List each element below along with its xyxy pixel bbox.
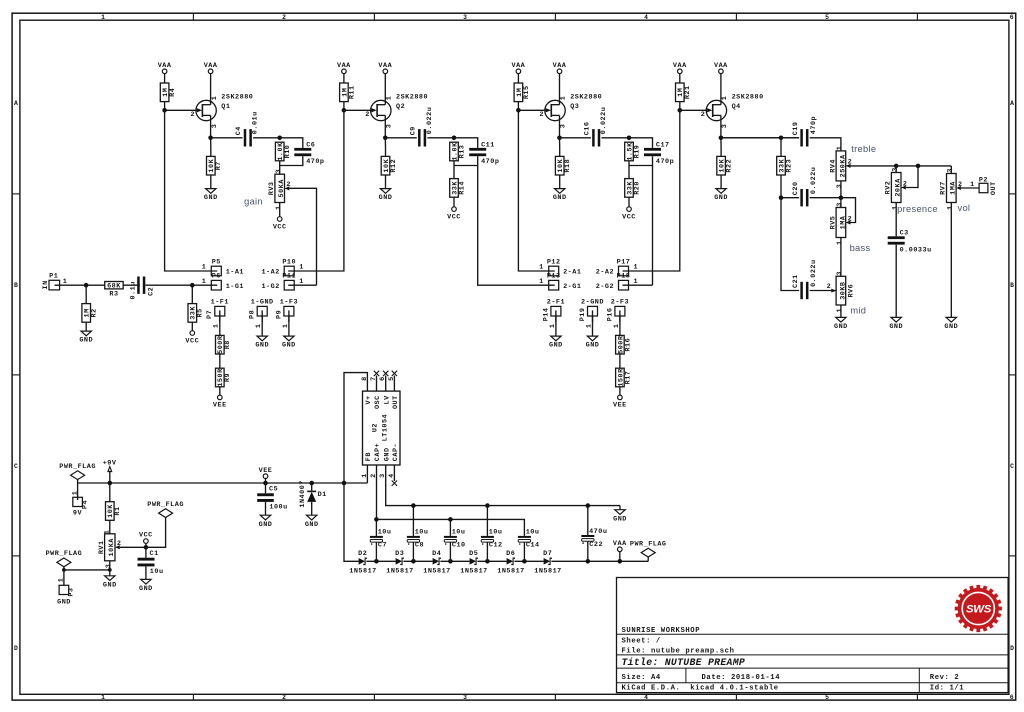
- capacitor C10 10u: [444, 529, 466, 550]
- wire R12 to GND: [385, 175, 387, 189]
- capacitor C21: [792, 259, 818, 299]
- svg-text:RV1: RV1: [98, 540, 106, 554]
- svg-text:1: 1: [947, 205, 955, 210]
- wire GND rail end: [619, 506, 621, 510]
- svg-text:PWR_FLAG: PWR_FLAG: [630, 540, 667, 548]
- svg-text:R8: R8: [224, 340, 232, 349]
- svg-text:RV4: RV4: [829, 159, 837, 173]
- svg-text:10u: 10u: [150, 568, 164, 576]
- ground below R7: [204, 189, 218, 203]
- wire C14 bottom stub: [523, 542, 525, 561]
- svg-text:C21: C21: [792, 274, 800, 288]
- svg-text:P9: P9: [275, 310, 283, 319]
- junction C7/CAP+: [374, 517, 379, 522]
- power VAA (stage 2 drain): [378, 62, 392, 74]
- svg-text:GND: GND: [305, 521, 319, 529]
- svg-text:3: 3: [275, 169, 283, 174]
- svg-text:GND: GND: [204, 194, 218, 202]
- wire node to R23: [780, 138, 782, 157]
- diode D4 1N5817: [423, 550, 450, 575]
- svg-text:U2: U2: [371, 423, 379, 432]
- wire P9 to GND: [288, 316, 290, 336]
- wire R8 to R9: [219, 354, 221, 368]
- junction C22/VAA rail: [586, 559, 591, 564]
- svg-text:Q1: Q1: [221, 103, 230, 111]
- svg-text:1: 1: [211, 96, 219, 101]
- svg-text:10u: 10u: [452, 529, 466, 537]
- wire C1 to GND: [145, 566, 147, 579]
- svg-text:2-G2: 2-G2: [596, 283, 614, 291]
- svg-text:A: A: [14, 100, 18, 107]
- capacitor C19: [792, 116, 818, 147]
- svg-text:R11: R11: [348, 85, 356, 99]
- svg-text:P11: P11: [282, 273, 296, 281]
- wire RV5 to RV6: [840, 238, 842, 277]
- svg-text:R1: R1: [114, 506, 122, 515]
- svg-text:2: 2: [282, 694, 286, 701]
- svg-text:1: 1: [836, 240, 844, 245]
- svg-text:1: 1: [970, 181, 975, 189]
- svg-text:3: 3: [721, 124, 729, 129]
- svg-text:GND: GND: [549, 342, 563, 350]
- svg-text:C: C: [14, 463, 18, 470]
- wire VAA to Q2 drain: [384, 74, 386, 105]
- wire RV3 to VCC: [279, 203, 281, 217]
- svg-text:IN: IN: [42, 280, 50, 289]
- svg-text:0.022u: 0.022u: [600, 107, 608, 134]
- svg-text:GND: GND: [255, 342, 269, 350]
- svg-text:470p: 470p: [306, 158, 324, 166]
- logo SWS: [955, 585, 1002, 632]
- svg-text:1: 1: [101, 14, 105, 21]
- svg-text:1: 1: [539, 264, 544, 272]
- svg-text:2-A2: 2-A2: [596, 269, 614, 277]
- junction C8/GND rail: [411, 503, 416, 508]
- wire C16 to node: [602, 137, 630, 139]
- connector P14 (2-F1): [542, 298, 565, 328]
- junction Q3 source node: [557, 136, 562, 141]
- svg-text:D1: D1: [318, 491, 327, 499]
- wire bass node to C20: [781, 197, 799, 199]
- resistor R2: [82, 304, 99, 323]
- wire V+ to diode rail: [344, 483, 359, 561]
- wire U2 pin1 FB to rail: [366, 465, 368, 483]
- svg-text:470p: 470p: [481, 158, 499, 166]
- wire gate node to Q2 gate: [344, 109, 372, 111]
- power flag at VAA: [630, 540, 667, 557]
- ground below P8: [255, 336, 269, 350]
- svg-text:2-GND: 2-GND: [581, 298, 604, 306]
- wire stage3 output to 2-G2: [652, 166, 654, 286]
- wire VAA to Q3 drain: [559, 74, 561, 105]
- wire C21 branch: [781, 198, 799, 291]
- wire R21 to gate node: [679, 102, 681, 111]
- ground below C5: [259, 515, 273, 529]
- wire RV6 to GND: [840, 305, 842, 317]
- capacitor C8 10u: [407, 529, 429, 550]
- wire R10 bottom segment: [279, 161, 281, 174]
- wire P8 to GND: [261, 316, 263, 336]
- wire R23 to bass node: [780, 175, 782, 198]
- svg-text:1-A2: 1-A2: [261, 269, 279, 277]
- wire RV7 to GND: [950, 203, 952, 318]
- svg-text:P18: P18: [617, 273, 631, 281]
- wire R19 bottom segment: [628, 161, 630, 179]
- wire C7 top to CAP+ rail: [375, 519, 377, 536]
- svg-text:30KB: 30KB: [839, 281, 847, 299]
- svg-text:1: 1: [58, 578, 66, 583]
- noconnect pin7: [374, 371, 379, 376]
- wire C22 top to GND rail: [587, 506, 589, 535]
- svg-text:P1: P1: [49, 273, 58, 281]
- svg-text:VCC: VCC: [139, 532, 153, 540]
- svg-text:1N4007: 1N4007: [299, 480, 307, 507]
- wire C8 bottom stub: [412, 542, 414, 561]
- capacitor C17: [644, 141, 674, 166]
- svg-text:2SK2880: 2SK2880: [396, 93, 428, 101]
- svg-text:R2: R2: [91, 308, 99, 317]
- capacitor C2: [129, 277, 155, 300]
- svg-text:GND: GND: [383, 447, 391, 461]
- wire Q3 gate to 2-A1: [518, 110, 554, 271]
- junction RV2 wiper tap: [916, 164, 921, 169]
- svg-text:GND: GND: [613, 515, 627, 523]
- svg-text:C12: C12: [489, 542, 503, 550]
- wire C17 bottom to divider node: [629, 156, 653, 165]
- wire 2-G2 stub: [623, 284, 653, 286]
- svg-text:10u: 10u: [415, 529, 429, 537]
- svg-text:P17: P17: [617, 258, 631, 266]
- svg-text:mid: mid: [850, 306, 866, 316]
- svg-text:B: B: [14, 282, 18, 289]
- connector P4 (9V): [71, 483, 89, 518]
- svg-text:C19: C19: [792, 122, 800, 136]
- svg-text:VAA: VAA: [378, 62, 392, 70]
- svg-text:R15: R15: [523, 85, 531, 99]
- wire U2 pin4 stub: [393, 465, 395, 481]
- power +9V symbol: [103, 459, 117, 483]
- wire RV1 wiper to VCC node: [120, 546, 146, 548]
- diode D5 1N5817: [460, 550, 487, 575]
- svg-text:R4: R4: [169, 88, 177, 97]
- svg-text:1: 1: [101, 694, 105, 701]
- svg-text:1-GND: 1-GND: [251, 298, 274, 306]
- wire VAA to Q1 drain: [210, 74, 212, 105]
- ground below P19: [586, 336, 600, 350]
- wire rail to R1: [109, 483, 111, 502]
- svg-text:PWR_FLAG: PWR_FLAG: [46, 550, 83, 558]
- svg-text:1: 1: [836, 308, 844, 313]
- svg-text:3: 3: [891, 167, 899, 172]
- svg-text:1N5817: 1N5817: [534, 568, 561, 576]
- junction D1 rail: [309, 481, 314, 486]
- wire P16 to R16: [619, 316, 621, 335]
- power VCC below RV3: [273, 217, 287, 232]
- svg-text:VAA: VAA: [714, 62, 728, 70]
- svg-text:VAA: VAA: [613, 540, 627, 548]
- svg-text:2: 2: [365, 111, 370, 119]
- ground below R12: [379, 189, 393, 203]
- svg-text:R12: R12: [390, 159, 398, 173]
- svg-text:470p: 470p: [656, 158, 674, 166]
- wire C21 to RV6 wiper: [810, 290, 836, 292]
- wire U2 pin2 CAP+ rail: [377, 465, 523, 519]
- power VAA (stage 4 drain): [714, 62, 728, 74]
- junction P3 node: [62, 568, 66, 572]
- wire source node to C4: [211, 137, 243, 139]
- junction RV1 pin3 node: [108, 568, 112, 572]
- diode D3 1N5817: [386, 550, 413, 575]
- svg-text:R19: R19: [633, 145, 641, 159]
- wire RV2 wiper up: [906, 166, 918, 188]
- resistor R20: [625, 179, 642, 198]
- svg-text:1N5817: 1N5817: [460, 568, 487, 576]
- svg-text:GND: GND: [139, 585, 153, 593]
- svg-text:KiCad E.D.A. kicad 4.0.1-stab: KiCad E.D.A. kicad 4.0.1-stable: [622, 684, 779, 692]
- svg-text:1: 1: [560, 96, 568, 101]
- svg-text:Size: A4: Size: A4: [622, 674, 661, 682]
- wire R9 to VEE: [219, 387, 221, 395]
- ground below P14: [549, 336, 563, 350]
- svg-text:VCC: VCC: [447, 213, 461, 221]
- svg-text:1-A1: 1-A1: [226, 269, 244, 277]
- junction VEE rail: [263, 481, 268, 486]
- wire U2 pin6 stub: [385, 376, 387, 392]
- potentiometer RV1: [98, 534, 121, 568]
- wire node to R5: [191, 285, 193, 303]
- svg-text:2-G1: 2-G1: [563, 283, 581, 291]
- wire source node to C19: [721, 137, 799, 139]
- wire to RV2: [895, 166, 897, 173]
- wire source node to C9: [385, 137, 417, 139]
- svg-text:VAA: VAA: [158, 62, 172, 70]
- wire pwrflag P3 stub: [63, 567, 65, 586]
- svg-text:3: 3: [463, 14, 467, 21]
- junction C9/R13 node: [452, 136, 457, 141]
- svg-text:OUT: OUT: [392, 395, 400, 409]
- wire R18 to GND: [559, 175, 561, 189]
- svg-text:SUNRISE WORKSHOP: SUNRISE WORKSHOP: [622, 627, 701, 635]
- svg-text:R18: R18: [564, 159, 572, 173]
- svg-text:2: 2: [701, 111, 706, 119]
- resistor R8: [216, 335, 233, 354]
- resistor R5: [188, 304, 205, 323]
- svg-text:D5: D5: [469, 550, 478, 558]
- power VAA (stage 4 bias): [673, 62, 687, 74]
- junction C10 bottom: [448, 559, 453, 564]
- wire VEE circle stub: [265, 479, 267, 484]
- svg-text:P8: P8: [249, 310, 257, 319]
- svg-text:VAA: VAA: [673, 62, 687, 70]
- wire VAA to R4: [164, 74, 166, 83]
- wire main 9V rail: [78, 482, 368, 484]
- svg-text:B: B: [1010, 282, 1014, 289]
- junction C12 bottom: [485, 559, 490, 564]
- svg-text:R5: R5: [197, 308, 205, 317]
- wire R16 to R17: [619, 354, 621, 368]
- potentiometer RV2 (presence): [885, 167, 908, 210]
- resistor R7: [207, 156, 224, 175]
- wire RV7 wiper to P2: [961, 187, 979, 189]
- svg-text:OSC: OSC: [374, 395, 382, 409]
- svg-text:CAP-: CAP-: [392, 443, 400, 461]
- wire RV2 to C3: [895, 203, 897, 237]
- svg-text:LT1054: LT1054: [381, 414, 389, 441]
- connector P1 (IN): [42, 273, 67, 290]
- power VCC below R20: [622, 207, 636, 222]
- resistor R12: [381, 156, 398, 175]
- resistor R3: [105, 282, 123, 299]
- ground below R2: [79, 331, 93, 345]
- wire pwrflag VAA stub: [647, 557, 649, 561]
- svg-text:1MA: 1MA: [950, 181, 958, 195]
- svg-text:0.1u: 0.1u: [129, 281, 137, 299]
- ic U2 LT1054: [361, 376, 400, 478]
- junction treble out / RV2: [894, 164, 899, 169]
- wire Q1 gate to 1-A1: [165, 110, 218, 271]
- connector P3 (GND): [57, 578, 76, 607]
- diode D2 1N5817: [349, 550, 376, 575]
- svg-text:GND: GND: [834, 323, 848, 331]
- wire VAA stub: [619, 552, 621, 562]
- svg-text:RV7: RV7: [940, 181, 948, 195]
- svg-text:1: 1: [299, 278, 304, 286]
- ground below RV1: [103, 576, 117, 590]
- svg-text:R3: R3: [109, 291, 118, 299]
- connector P13 (2-G1): [539, 273, 581, 291]
- capacitor C1: [138, 550, 164, 576]
- transistor Q1 2SK2880: [191, 93, 254, 128]
- noconnect pin4: [392, 481, 397, 486]
- svg-text:Q2: Q2: [396, 103, 405, 111]
- svg-text:P4: P4: [81, 500, 89, 509]
- svg-text:6: 6: [1010, 14, 1014, 21]
- capacitor C9: [410, 107, 435, 147]
- wire R14 to VCC: [453, 197, 455, 207]
- svg-text:1N5817: 1N5817: [386, 568, 413, 576]
- svg-text:RV2: RV2: [885, 181, 893, 195]
- wire rail segment after D5: [477, 560, 506, 562]
- transistor Q3 2SK2880: [539, 93, 602, 128]
- wire source node to R18: [559, 138, 561, 157]
- svg-text:D7: D7: [543, 550, 552, 558]
- svg-text:1-G2: 1-G2: [261, 283, 279, 291]
- title block: [617, 578, 1009, 693]
- junction input/R2: [84, 283, 89, 288]
- svg-text:1-F1: 1-F1: [211, 298, 229, 306]
- wire node to C6: [280, 138, 303, 148]
- wire VCC circle stub: [145, 543, 147, 547]
- connector P18 (2-G2): [596, 273, 638, 291]
- wire C12 top to GND rail: [486, 506, 488, 536]
- wire C22 bottom stub: [587, 541, 589, 561]
- junction C8 bottom: [411, 559, 416, 564]
- svg-text:3: 3: [386, 124, 394, 129]
- noconnect pin6: [383, 371, 388, 376]
- svg-text:P13: P13: [547, 273, 561, 281]
- capacitor C4: [235, 111, 260, 146]
- power VEE below R17: [613, 395, 627, 410]
- svg-text:P3: P3: [68, 588, 76, 597]
- wire R20 to VCC: [628, 197, 630, 207]
- transistor Q4 2SK2880: [701, 93, 764, 128]
- wire U2 pin8 V+ to rail: [344, 373, 367, 483]
- wire C19 to RV4: [810, 138, 841, 151]
- svg-text:C10: C10: [452, 542, 466, 550]
- power flag at GND input: [46, 550, 83, 567]
- resistor R13: [450, 142, 467, 161]
- svg-text:GND: GND: [714, 194, 728, 202]
- power VCC at RV1 wiper: [139, 532, 153, 544]
- wire R5 to VCC: [191, 322, 193, 331]
- junction C7 bottom: [374, 559, 379, 564]
- svg-text:P14: P14: [542, 308, 550, 322]
- svg-text:PWR_FLAG: PWR_FLAG: [59, 463, 96, 471]
- capacitor C3: [888, 230, 932, 255]
- svg-text:C17: C17: [656, 141, 670, 149]
- svg-text:C20: C20: [792, 181, 800, 195]
- resistor R4: [160, 83, 177, 102]
- power VAA (stage 2 bias): [337, 62, 351, 74]
- wire rail segment after D3: [403, 560, 432, 562]
- transistor Q2 2SK2880: [365, 93, 428, 128]
- svg-text:2SK2880: 2SK2880: [570, 93, 602, 101]
- noconnect pin5: [392, 371, 397, 376]
- wire VAA to R11: [343, 74, 345, 83]
- wire R22 to GND: [720, 175, 722, 189]
- svg-text:C11: C11: [481, 141, 495, 149]
- svg-text:VAA: VAA: [553, 62, 567, 70]
- svg-text:RV3: RV3: [268, 181, 276, 195]
- connector P5 (1-A1): [202, 258, 244, 276]
- capacitor C7 10u: [370, 529, 392, 550]
- svg-text:R22: R22: [726, 159, 734, 173]
- svg-text:Title: NUTUBE PREAMP: Title: NUTUBE PREAMP: [622, 657, 746, 668]
- svg-text:2SK2880: 2SK2880: [732, 93, 764, 101]
- capacitor C12 10u: [481, 529, 503, 550]
- wire RV5 loop: [841, 198, 856, 223]
- potentiometer RV6 (mid): [827, 271, 856, 312]
- svg-text:bass: bass: [850, 243, 871, 253]
- svg-text:2: 2: [848, 215, 853, 223]
- svg-text:VEE: VEE: [613, 402, 627, 410]
- svg-text:FB: FB: [365, 452, 373, 461]
- wire source node to R12: [384, 138, 386, 157]
- svg-text:D: D: [1010, 645, 1014, 652]
- svg-text:R20: R20: [633, 181, 641, 195]
- resistor R19: [625, 142, 642, 161]
- wire rail segment after D4: [440, 560, 469, 562]
- power VCC below R5: [185, 331, 199, 346]
- svg-text:Id: 1/1: Id: 1/1: [930, 684, 964, 692]
- svg-text:3: 3: [836, 271, 844, 276]
- wire rail segment after D6: [514, 560, 543, 562]
- svg-text:R10: R10: [284, 145, 292, 159]
- ground below RV7: [944, 317, 958, 331]
- svg-text:Q3: Q3: [570, 103, 579, 111]
- wire node to RV5: [840, 198, 842, 208]
- capacitor C20: [792, 167, 818, 207]
- wire R15 to gate node: [517, 102, 519, 111]
- svg-text:P19: P19: [579, 308, 587, 322]
- svg-text:5: 5: [825, 14, 829, 21]
- ground below R18: [553, 189, 567, 203]
- svg-text:2-A1: 2-A1: [563, 269, 581, 277]
- wire R11 to gate node: [343, 102, 345, 111]
- svg-text:1: 1: [634, 264, 639, 272]
- svg-text:R14: R14: [458, 181, 466, 195]
- svg-text:R17: R17: [624, 371, 632, 385]
